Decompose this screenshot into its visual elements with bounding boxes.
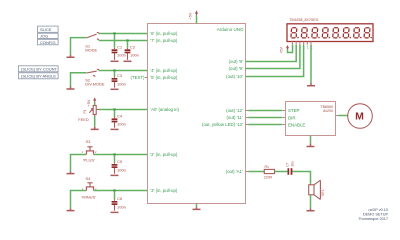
- capacitor C5 100n: [111, 155, 126, 176]
- wire speaker to ground: [310, 195, 312, 209]
- ground GND S2: [67, 87, 75, 90]
- svg-text:100n: 100n: [130, 53, 139, 58]
- +5V supply (display): [280, 45, 293, 54]
- wire net 8 to display stb: [246, 45, 297, 62]
- ground GND speaker: [307, 208, 315, 211]
- svg-text:MODE: MODE: [85, 48, 97, 53]
- ground GND S1: [67, 55, 75, 57]
- svg-text:(out) 'A1': (out) 'A1': [226, 169, 243, 174]
- capacitor C1 100n: [111, 34, 126, 62]
- svg-text:TB6560: TB6560: [320, 105, 333, 109]
- motor M1: [348, 104, 373, 129]
- wire net pin2: [94, 154, 148, 156]
- title block text: [358, 208, 388, 221]
- Arduino U1 box: [148, 24, 246, 204]
- wire S1 common to ground rail: [71, 38, 87, 55]
- capacitor C7 10u: [285, 161, 294, 175]
- svg-text:M: M: [355, 111, 364, 123]
- svg-text:C5: C5: [117, 159, 123, 164]
- stepper driver U3 TB6560 box: [282, 102, 338, 136]
- annotation box (SLICE) BY ANGLE: [19, 73, 59, 79]
- svg-text:'MINUS': 'MINUS': [82, 194, 97, 199]
- svg-text:C1: C1: [117, 44, 123, 49]
- svg-text:(out) '12': (out) '12': [226, 108, 243, 113]
- svg-text:'7' (in, pull-up): '7' (in, pull-up): [150, 38, 178, 43]
- potentiometer P1 FEED: [78, 106, 99, 122]
- svg-text:100n: 100n: [117, 53, 126, 58]
- junction C4: [113, 108, 115, 110]
- svg-text:'A0' (analog in): 'A0' (analog in): [150, 107, 179, 112]
- capacitor C6 100n: [111, 191, 126, 213]
- speaker SP1: [309, 180, 325, 199]
- svg-text:C6: C6: [117, 196, 123, 201]
- +5V supply (pot P1): [87, 98, 97, 107]
- svg-text:JOG: JOG: [40, 34, 48, 39]
- svg-text:10u: 10u: [290, 161, 294, 167]
- svg-text:(out) '8': (out) '8': [229, 59, 243, 64]
- svg-text:ncDP v0.10: ncDP v0.10: [368, 208, 388, 212]
- wire net pin7: [99, 40, 148, 42]
- +5V supply P+1 (arduino top): [188, 10, 198, 23]
- svg-text:(out) '9': (out) '9': [229, 66, 243, 71]
- annotation box (SLICE) BY COUNT: [19, 66, 59, 72]
- wire C7 to speaker: [292, 172, 310, 184]
- Arduino right pin stubs: [246, 62, 249, 172]
- svg-text:C4: C4: [117, 114, 123, 119]
- wire net pin4: [99, 70, 148, 72]
- svg-text:(out, yellow LED) '13': (out, yellow LED) '13': [202, 122, 243, 127]
- annotation box SLICE: [38, 26, 59, 32]
- ground GND display: [307, 83, 315, 86]
- junction C5: [113, 153, 115, 155]
- wire TB6560 gnd: [310, 136, 312, 144]
- svg-text:'6' (in, pull-up): '6' (in, pull-up): [150, 31, 178, 36]
- svg-text:Thomeeque 2017: Thomeeque 2017: [358, 217, 388, 221]
- wire R1 to C7: [275, 171, 288, 173]
- wire display gnd: [310, 45, 312, 83]
- switch S1 MODE: [87, 32, 99, 40]
- wire net A1: [248, 171, 264, 173]
- svg-text:S4: S4: [86, 176, 92, 181]
- wire S4 left to ground: [71, 191, 87, 209]
- svg-text:100n: 100n: [117, 81, 126, 86]
- svg-text:100n: 100n: [117, 167, 126, 172]
- svg-text:+5V: +5V: [188, 12, 192, 19]
- wire S3 left to ground: [71, 155, 87, 172]
- Arduino pin labels right: [202, 59, 243, 174]
- display pin stubs: [293, 42, 312, 45]
- junction C2: [126, 39, 128, 41]
- svg-text:(out) '11': (out) '11': [226, 115, 242, 120]
- ground GND S4: [67, 208, 75, 210]
- svg-text:(out) '10': (out) '10': [226, 74, 243, 79]
- display U2 TM1638 8x7seg: [287, 18, 373, 42]
- svg-text:C2: C2: [130, 44, 136, 49]
- svg-text:(TEST): (TEST): [131, 75, 146, 80]
- svg-text:100n: 100n: [117, 204, 126, 209]
- ground GND arduino bottom: [193, 204, 201, 210]
- svg-text:FEED: FEED: [78, 117, 89, 122]
- junction C1: [113, 32, 115, 34]
- svg-text:R1: R1: [265, 165, 270, 169]
- wire net pin6: [99, 33, 148, 35]
- wire TB6560 to motor: [338, 115, 348, 117]
- svg-text:CONFIG: CONFIG: [40, 40, 56, 45]
- svg-text:P1: P1: [83, 109, 87, 113]
- svg-text:ENABLE: ENABLE: [288, 122, 305, 127]
- wire net pin3: [94, 190, 148, 192]
- svg-text:TM1638_8X7SEG: TM1638_8X7SEG: [289, 18, 318, 22]
- svg-text:100n: 100n: [117, 122, 126, 127]
- capacitor C2 100n: [124, 41, 139, 62]
- Arduino left pin stubs: [145, 34, 148, 191]
- svg-text:Arduino UNO: Arduino UNO: [217, 27, 244, 32]
- svg-text:'5' (in, pull-up): '5' (in, pull-up): [150, 75, 178, 80]
- pushbutton S3 'PLUS': [86, 147, 94, 155]
- svg-text:'4' (in, pull-up): '4' (in, pull-up): [150, 68, 178, 73]
- svg-text:8x200: 8x200: [323, 109, 333, 113]
- Arduino pin labels left: [150, 31, 179, 193]
- junction C6: [113, 189, 115, 191]
- wire S2 common to ground rail: [71, 73, 87, 87]
- svg-text:DIR: DIR: [288, 115, 296, 120]
- ground GND S3: [67, 171, 75, 173]
- wire net 10 to display dio: [246, 45, 304, 77]
- svg-text:C3: C3: [117, 73, 123, 78]
- svg-text:(SLICE) BY COUNT: (SLICE) BY COUNT: [21, 67, 57, 72]
- switch S2 DIV.MODE: [87, 69, 99, 77]
- svg-text:DIV.MODE: DIV.MODE: [85, 81, 105, 86]
- svg-text:'3' (in, pull-up): '3' (in, pull-up): [150, 188, 178, 193]
- svg-text:'PLUS': 'PLUS': [83, 157, 95, 162]
- capacitor C3 100n: [111, 71, 126, 90]
- svg-text:+5V: +5V: [87, 99, 91, 106]
- svg-text:SLICE: SLICE: [40, 27, 52, 32]
- wire net A0: [99, 109, 148, 111]
- wire net 11 DIR: [248, 117, 282, 119]
- pushbutton S4 'MINUS': [86, 183, 94, 191]
- ground GND TB6560: [307, 143, 315, 146]
- svg-text:'SP1': 'SP1': [321, 188, 325, 196]
- svg-text:+5V: +5V: [280, 46, 284, 53]
- svg-text:(SLICE) BY ANGLE: (SLICE) BY ANGLE: [21, 74, 56, 79]
- svg-text:C7: C7: [285, 162, 289, 166]
- svg-text:220R: 220R: [264, 175, 273, 179]
- svg-text:STEP: STEP: [288, 108, 300, 113]
- display pin names (tiny): [292, 45, 313, 49]
- wire net 13 ENABLE: [248, 124, 282, 126]
- svg-text:'2' (in, pull-up): '2' (in, pull-up): [150, 152, 178, 157]
- svg-text:S3: S3: [86, 139, 92, 144]
- wire pot bottom to ground: [91, 115, 99, 130]
- wire net 9 to display clk: [246, 45, 300, 69]
- wire net 12 STEP: [248, 110, 282, 112]
- annotation box CONFIG: [38, 39, 59, 45]
- capacitor C4 100n: [111, 110, 126, 130]
- svg-text:DEMO SETUP: DEMO SETUP: [363, 213, 389, 217]
- annotation box JOG: [38, 33, 59, 38]
- junction C3: [113, 69, 115, 71]
- resistor R1 220R: [264, 165, 275, 179]
